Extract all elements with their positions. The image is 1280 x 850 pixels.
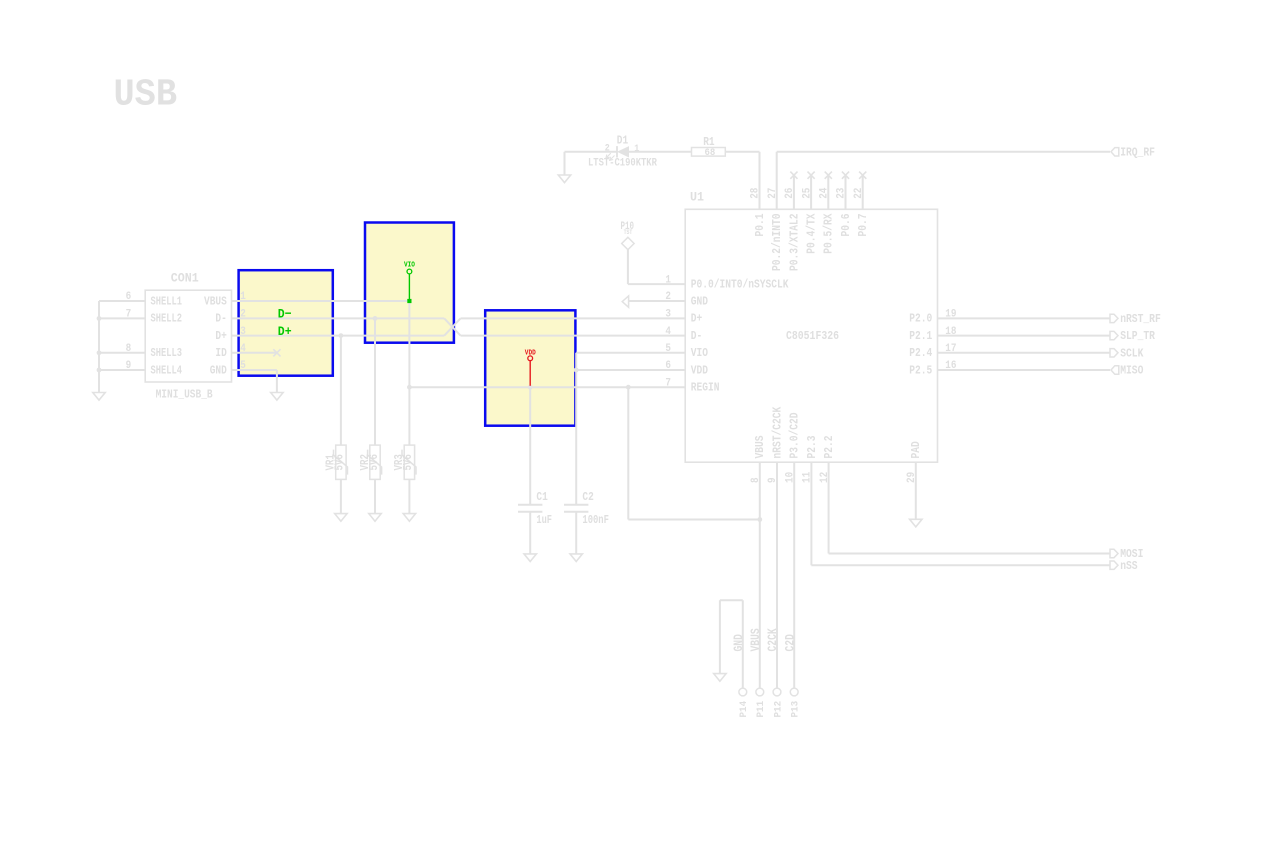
svg-text:D−: D−: [278, 306, 292, 321]
svg-text:VDD: VDD: [691, 364, 708, 377]
U1 bottom pin names: [754, 407, 923, 459]
junction VBUS8: [757, 517, 762, 522]
junction shell2: [97, 316, 102, 321]
junction C1 REGIN: [528, 385, 533, 390]
wire SHELL2: [99, 317, 145, 319]
svg-text:SCLK: SCLK: [1120, 346, 1144, 360]
svg-text:100nF: 100nF: [582, 514, 609, 527]
ground D1: [558, 175, 570, 183]
test point P13: [790, 688, 802, 717]
U1 left pin numbers: [665, 274, 671, 389]
svg-text:4: 4: [665, 326, 671, 338]
hierarchical label nSS: [1110, 559, 1138, 573]
svg-text:P0.2/nINT0: P0.2/nINT0: [771, 213, 784, 271]
wire VDD pin6: [576, 369, 685, 371]
svg-text:D+: D+: [215, 330, 226, 343]
wire P14 GND: [720, 600, 743, 688]
wire VR1 tap: [340, 336, 342, 446]
no-connect pin 22: [859, 172, 866, 210]
hierarchical label SLP_TR: [1110, 329, 1156, 343]
svg-text:LTST-C190KTKR: LTST-C190KTKR: [588, 158, 657, 170]
ground CON1 GND: [271, 393, 283, 401]
svg-text:U1: U1: [690, 191, 704, 205]
wire SLP_TR: [938, 335, 1111, 337]
svg-text:C2CK: C2CK: [766, 628, 780, 652]
svg-text:P2.4: P2.4: [909, 347, 932, 360]
svg-text:ID: ID: [215, 347, 226, 360]
no-connect ID: [232, 349, 281, 356]
svg-text:C8051F326: C8051F326: [786, 329, 839, 343]
svg-text:P11: P11: [755, 701, 767, 718]
svg-text:SHELL3: SHELL3: [151, 347, 183, 360]
highlight box fill 3: [485, 310, 575, 425]
svg-text:C1: C1: [536, 491, 547, 504]
ground shell: [93, 393, 105, 401]
no-connect pin 24: [825, 172, 832, 210]
varistor VR3: [393, 445, 416, 521]
svg-text:P2.5: P2.5: [909, 364, 932, 377]
svg-text:MINI_USB_B: MINI_USB_B: [156, 388, 213, 402]
svg-text:D-: D-: [215, 313, 226, 326]
wire pin8 VBUS: [759, 462, 761, 688]
svg-text:5V6: 5V6: [402, 454, 415, 471]
wire C2 drop: [575, 353, 577, 505]
svg-text:27: 27: [767, 188, 779, 199]
svg-text:CON1: CON1: [171, 271, 199, 285]
wire MISO: [938, 369, 1111, 371]
svg-text:VBUS: VBUS: [754, 435, 767, 458]
highlight box fill 1: [239, 270, 333, 376]
svg-text:TST: TST: [624, 229, 633, 236]
svg-text:P12: P12: [772, 701, 784, 718]
svg-text:D+: D+: [278, 324, 292, 339]
hierarchical label nRST_RF: [1110, 312, 1161, 326]
junction D+ VR1: [339, 333, 344, 338]
wire P0.2-IRQ: [777, 152, 1110, 210]
svg-text:P0.6: P0.6: [840, 213, 853, 236]
power GND pin2: [622, 296, 685, 307]
green label D-: [278, 306, 292, 321]
wire pin11 nSS: [811, 462, 1110, 565]
capacitor C2: [564, 491, 609, 562]
svg-text:SHELL1: SHELL1: [151, 295, 183, 308]
wire VBUS down: [408, 301, 410, 445]
svg-text:P2.3: P2.3: [806, 435, 819, 458]
svg-text:P13: P13: [790, 701, 802, 718]
no-connect pin 26: [790, 172, 797, 210]
wire VIO pin5: [576, 352, 685, 354]
hierarchical label MISO: [1111, 364, 1143, 378]
U1 right pin names: [909, 309, 957, 378]
highlight box border 2: [365, 223, 454, 343]
IC U1 outline: [685, 191, 937, 463]
svg-text:nRST/C2CK: nRST/C2CK: [771, 407, 784, 459]
svg-text:VIO: VIO: [404, 261, 415, 269]
connector CON1: [126, 271, 247, 401]
wire shell bus: [98, 301, 100, 393]
net label VBUS: [749, 628, 763, 652]
wire SHELL4: [99, 369, 145, 371]
wire GND pin: [232, 370, 277, 393]
ground P14: [714, 674, 726, 682]
junction REGIN down: [626, 385, 631, 390]
svg-text:5V6: 5V6: [368, 454, 381, 471]
junction shell3: [97, 350, 102, 355]
wire D+ cross: [444, 318, 460, 335]
U1 top pin names: [754, 213, 870, 271]
wire SCLK: [938, 352, 1111, 354]
svg-text:SHELL4: SHELL4: [151, 364, 183, 377]
wire pin12 MOSI: [829, 462, 1110, 553]
LED D1: [565, 134, 658, 175]
varistor VR1: [325, 445, 348, 521]
svg-text:P2.1: P2.1: [909, 330, 932, 343]
wire R1-P0.1: [725, 152, 759, 210]
svg-text:VBUS: VBUS: [749, 628, 763, 652]
no-connect pin 23: [842, 172, 849, 210]
no-connect pin 25: [808, 172, 815, 210]
wire D1-R1: [629, 151, 692, 153]
net label C2CK: [766, 628, 780, 652]
svg-text:1: 1: [634, 144, 639, 155]
svg-text:P14: P14: [738, 701, 750, 718]
svg-text:D+: D+: [691, 313, 703, 326]
svg-text:P3.0/C2D: P3.0/C2D: [789, 412, 802, 458]
wire D- left: [232, 317, 445, 319]
capacitor C1: [518, 491, 552, 562]
svg-text:VBUS: VBUS: [204, 295, 227, 308]
svg-text:MISO: MISO: [1120, 364, 1143, 378]
wire PAD pin29: [915, 462, 917, 519]
junction shell4: [97, 368, 102, 373]
svg-text:D-: D-: [691, 330, 703, 343]
svg-text:nRST_RF: nRST_RF: [1120, 312, 1161, 326]
svg-text:3: 3: [665, 309, 671, 321]
svg-text:P0.7: P0.7: [857, 213, 870, 236]
wire pin9 C2CK: [776, 462, 778, 688]
wire D+ left: [232, 335, 445, 337]
wire VR2 tap: [374, 318, 376, 445]
net label C2D: [783, 634, 797, 652]
junction D- VR2: [373, 316, 378, 321]
svg-text:28: 28: [750, 187, 762, 199]
wire pin10 C2D: [793, 462, 795, 688]
title USB: [114, 74, 178, 117]
svg-text:PAD: PAD: [910, 441, 923, 458]
svg-text:GND: GND: [732, 634, 746, 652]
power symbol VIO: [404, 261, 415, 303]
svg-text:REGIN: REGIN: [691, 382, 720, 395]
svg-text:C2: C2: [582, 491, 593, 504]
svg-text:SHELL2: SHELL2: [151, 313, 183, 326]
svg-text:P0.0/INT0/nSYSCLK: P0.0/INT0/nSYSCLK: [691, 278, 789, 291]
svg-text:P2.2: P2.2: [823, 435, 836, 458]
svg-text:68: 68: [705, 147, 716, 159]
resistor R1: [692, 136, 726, 159]
svg-text:5V6: 5V6: [334, 454, 347, 471]
wire D- right: [461, 335, 686, 337]
test point P10: [621, 221, 635, 250]
junction VDD C2: [574, 368, 579, 373]
wire REGIN: [409, 386, 685, 388]
wire VBUS: [232, 300, 410, 302]
wire D- cross: [444, 318, 460, 335]
wire REGIN-VBUS8: [628, 387, 760, 519]
ground PAD: [910, 519, 922, 527]
svg-text:P2.0: P2.0: [909, 313, 932, 326]
svg-text:GND: GND: [691, 295, 708, 308]
highlight box border 1: [239, 270, 333, 376]
net label GND: [732, 634, 746, 652]
hierarchical label IRQ_RF: [1111, 145, 1155, 159]
svg-text:C2D: C2D: [783, 634, 797, 652]
green label D+: [278, 324, 292, 339]
U1 left pin names: [691, 278, 789, 394]
test point P14: [738, 688, 750, 717]
svg-text:P0.3/XTAL2: P0.3/XTAL2: [788, 213, 801, 271]
svg-text:GND: GND: [210, 364, 227, 377]
svg-text:P0.5/RX: P0.5/RX: [823, 213, 836, 253]
svg-text:2: 2: [605, 143, 610, 154]
junction VBUS REGIN: [407, 385, 412, 390]
hierarchical label SCLK: [1110, 346, 1144, 360]
wire D+ right: [461, 317, 686, 319]
svg-text:1uF: 1uF: [536, 514, 552, 527]
power symbol VDD: [525, 349, 536, 386]
svg-text:IRQ_RF: IRQ_RF: [1120, 145, 1155, 159]
test point P11: [755, 688, 767, 717]
highlight box border 3: [485, 310, 575, 425]
svg-text:D1: D1: [617, 134, 628, 147]
U1 bottom pin numbers: [750, 471, 918, 483]
test point P12: [772, 688, 784, 717]
wire C1 drop: [529, 387, 531, 505]
wire SHELL1: [99, 300, 145, 302]
hierarchical label MOSI: [1110, 547, 1143, 561]
U1 top pin numbers: [750, 187, 865, 199]
svg-text:SLP_TR: SLP_TR: [1120, 329, 1155, 343]
svg-text:VIO: VIO: [691, 347, 708, 360]
svg-text:nSS: nSS: [1120, 559, 1137, 573]
highlight box fill 2: [365, 223, 454, 343]
wire SHELL3: [99, 352, 145, 354]
wire P10-P0.0: [628, 250, 685, 284]
svg-text:P0.1: P0.1: [754, 213, 767, 236]
svg-text:USB: USB: [114, 74, 178, 117]
svg-text:P0.4/TX: P0.4/TX: [806, 213, 819, 253]
wire nRST_RF: [938, 317, 1111, 319]
varistor VR2: [359, 445, 382, 521]
